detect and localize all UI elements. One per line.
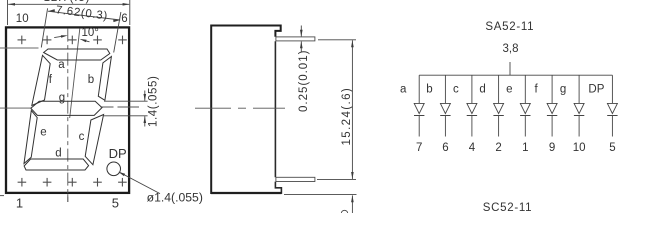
common stub wire (509, 62, 511, 75)
leader line at left (0, 47, 39, 49)
segment c (85, 115, 103, 165)
svg-text:10: 10 (573, 142, 586, 154)
pin marks bottom row (18, 181, 27, 183)
svg-text:b: b (88, 74, 94, 86)
svg-text:c: c (79, 131, 85, 143)
svg-text:a: a (400, 84, 407, 96)
diode c branch (471, 75, 473, 103)
bottom pin (side) (276, 177, 315, 181)
diode f branch (551, 75, 553, 103)
svg-text:7: 7 (416, 142, 422, 154)
diode a branch (418, 75, 420, 103)
diode b branch (444, 75, 446, 103)
svg-text:d: d (55, 147, 61, 159)
segment e (24, 111, 37, 164)
svg-text:10°: 10° (82, 27, 99, 39)
dimension 12.7 extension lines (7, 0, 9, 25)
svg-text:e: e (506, 84, 512, 96)
horizontal centerline left (0, 107, 32, 109)
left margin tick (0, 195, 4, 197)
svg-text:ø1.4(.055): ø1.4(.055) (147, 191, 203, 205)
side view bottom-right step (275, 182, 281, 194)
segment b (98, 57, 111, 101)
svg-text:9: 9 (549, 142, 555, 154)
side view body outline (211, 26, 281, 195)
dimension line 7.62(0.3) (48, 11, 120, 20)
svg-text:DP: DP (588, 84, 604, 96)
svg-text:c: c (453, 84, 459, 96)
svg-text:2: 2 (495, 142, 501, 154)
vertical centerline (67, 29, 69, 202)
svg-text:g: g (560, 84, 566, 96)
svg-text:a: a (58, 59, 65, 71)
svg-text:DP: DP (109, 146, 127, 161)
diode e branch (524, 75, 526, 103)
diode DP branch (611, 75, 613, 103)
dimension 1.4(.055) extension lines (104, 100, 148, 102)
pin marks top row (18, 39, 27, 41)
display package front outline (6, 27, 129, 193)
DP diameter leader (120, 172, 161, 193)
side view bottom edge (211, 192, 282, 194)
dimension 15.24(.6) (318, 39, 356, 41)
dimension line 12.7(.5) (8, 3, 129, 5)
svg-text:3,8: 3,8 (503, 43, 519, 55)
svg-text:0.25(0.01): 0.25(0.01) (298, 50, 310, 112)
common bus wire (419, 74, 612, 76)
svg-text:b: b (426, 84, 432, 96)
dimension 0.25(0.01) arrows (300, 26, 302, 37)
side view right edge (274, 41, 276, 177)
diode g branch (578, 75, 580, 103)
svg-text:12.7(.5): 12.7(.5) (44, 0, 91, 4)
svg-text:10: 10 (16, 13, 29, 25)
svg-text:15.24(.6): 15.24(.6) (341, 87, 353, 146)
slanted digit axis (10 deg) (70, 29, 80, 118)
svg-text:e: e (40, 126, 46, 138)
svg-text:SC52-11: SC52-11 (483, 202, 532, 213)
svg-text:4: 4 (469, 142, 476, 154)
side view centerline (195, 107, 285, 109)
segment a (44, 49, 110, 60)
bottom partial dimension (284, 194, 357, 196)
svg-text:SA52-11: SA52-11 (485, 21, 534, 33)
segment f (32, 55, 50, 105)
dimension 7.62(0.3) slanted extension lines (41, 8, 47, 47)
segment d (24, 159, 89, 170)
top pin (side) (276, 37, 315, 41)
angle leader arrows (54, 36, 62, 37)
svg-text:1.4(.055): 1.4(.055) (148, 76, 160, 127)
svg-text:1: 1 (16, 196, 23, 211)
diode d branch (498, 75, 500, 103)
svg-text:g: g (59, 92, 65, 104)
segment g (31, 101, 102, 115)
decimal point DP (107, 162, 121, 176)
horizontal centerline right dashes (101, 106, 140, 108)
svg-text:6: 6 (121, 13, 127, 25)
svg-text:d: d (479, 84, 485, 96)
svg-text:1: 1 (522, 142, 528, 154)
centerline below package (67, 194, 69, 202)
svg-text:6: 6 (442, 142, 448, 154)
svg-text:5: 5 (112, 196, 119, 211)
svg-text:5: 5 (609, 142, 615, 154)
